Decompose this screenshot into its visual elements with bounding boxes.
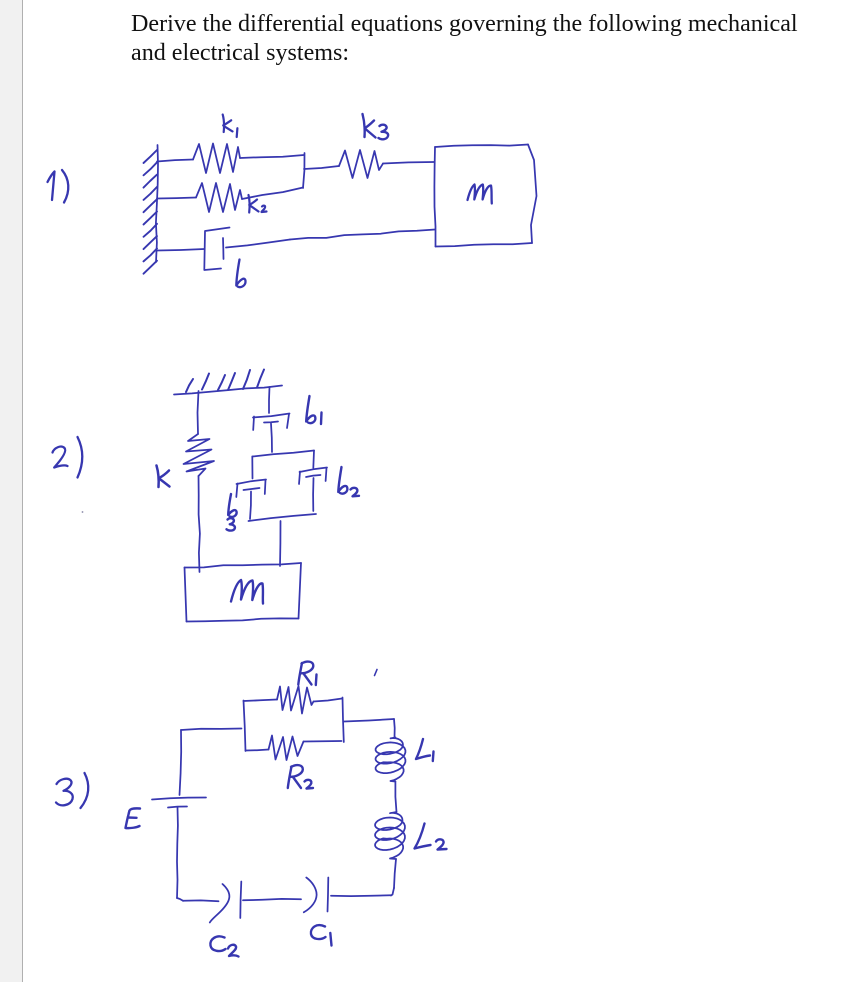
figure label 2): [53, 437, 83, 478]
label L1: [416, 739, 434, 761]
heading text: [131, 10, 831, 68]
label C1: [311, 925, 332, 945]
resistor R1: [244, 686, 343, 714]
label m (fig1): [468, 185, 492, 204]
mass m box (fig2): [185, 563, 302, 622]
node bar right: [343, 698, 344, 743]
mass m box (fig1): [434, 145, 536, 247]
label k3: [363, 114, 389, 139]
stray tick: [375, 670, 378, 676]
wire battery to R block: [181, 729, 242, 731]
label k: [157, 466, 170, 488]
junction bar top: [252, 451, 314, 479]
wall fixed support: [144, 145, 159, 274]
label b3: [227, 494, 237, 531]
label b1: [306, 396, 321, 424]
inductor L2: [375, 812, 405, 859]
label R1: [298, 662, 316, 685]
inductor L1: [376, 738, 406, 782]
label m (fig2): [231, 580, 263, 604]
figure label 3): [56, 773, 88, 808]
spring k2: [157, 183, 303, 212]
damper b1: [253, 387, 290, 452]
node bar left: [244, 701, 246, 752]
wire C2 to battery: [177, 898, 219, 901]
damper b2: [299, 468, 327, 512]
label k2: [249, 195, 267, 213]
capacitor C1: [304, 878, 391, 913]
capacitor C2: [210, 882, 242, 923]
label R2: [288, 765, 313, 788]
wire C1 to C2: [243, 899, 301, 900]
label L2: [415, 824, 447, 850]
spring k: [184, 391, 215, 572]
wire L1 to L2: [395, 782, 396, 813]
node junction bar: [303, 153, 305, 188]
wire damper to mass (fig1): [290, 230, 435, 240]
wire R block to corner: [344, 719, 395, 737]
spring k3: [304, 150, 434, 178]
junction bar bottom: [249, 514, 317, 521]
label b2: [338, 467, 359, 496]
damper b3: [236, 480, 266, 520]
figure label 1): [48, 170, 69, 203]
battery E: [152, 730, 206, 898]
left gutter strip: [0, 0, 23, 982]
label E: [126, 808, 141, 828]
stray dot: [82, 511, 84, 513]
damper b: [157, 228, 290, 271]
spring k1: [157, 144, 304, 174]
ceiling fixed support: [174, 370, 282, 395]
wire junction to mass (fig2): [279, 521, 282, 566]
label C2: [210, 936, 238, 956]
label k1: [223, 115, 238, 138]
label b: [236, 260, 245, 288]
wire L2 to corner: [391, 859, 396, 896]
resistor R2: [246, 736, 342, 761]
